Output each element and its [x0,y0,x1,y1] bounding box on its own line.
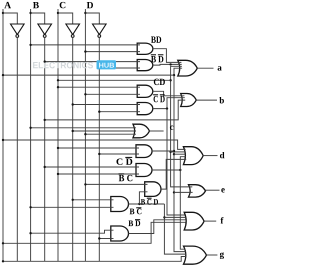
label C D-bar [116,157,132,164]
wire B-bar to AND BbC in1 [45,166,139,168]
and-gate CD [137,85,153,97]
and-gate B C-bar [111,197,129,212]
label B-bar C [119,174,133,181]
inverter NOT-C [66,24,80,37]
wire A to OR d in1 [3,140,186,149]
and-gate C-bar D-bar [137,103,153,115]
node D inverter branch junction [84,12,86,14]
wire input D rail [84,9,86,261]
wire BbC up to OR d in4 [180,157,186,170]
wire B-bar to AND BbC in1 junction [44,166,46,168]
wire D-bar to AND CbDb in2 [99,111,140,113]
wire D to OR c in3 junction [84,133,86,135]
or-gate b [181,94,197,107]
wire C-bar to OR c in2 [73,130,136,132]
output label b [219,97,224,103]
input label C [60,2,66,8]
wire output g [207,254,218,256]
wire C-bar to AND BCb in1 junction [72,199,74,201]
node B-bar rail junction y120 [44,119,46,121]
wire C-bar to AND BCb in1 [73,199,114,201]
wire bus x174 to OR d in3 [174,153,186,155]
wire C to AND CD in1 junction [57,86,59,88]
wire B-bar rail [44,38,46,261]
wire input A rail [2,9,4,261]
label B-bar D-bar [151,55,164,63]
wire C-bar rail [72,38,74,261]
wire D-bar to AND CDb in2 junction [98,153,100,155]
wire D to AND CD in2 [85,93,140,95]
node OR d in2 branch on bus x170 [169,151,171,153]
wire D to OR c in3 [85,133,136,135]
node OR e in2 branch on bus x174 [173,191,175,193]
wire bus x174 to OR e in2 [174,191,193,193]
wire output a [197,67,213,69]
wire bus x170 OR a in3 to OR e in1 [171,66,193,187]
inverter NOT-D [93,24,107,37]
wire AND BDb out to OR f in3 [129,220,186,234]
wire C to AND CDb in1 junction [57,147,59,149]
watermark ELECTRONICS text [33,62,93,69]
wire B to AND BCb in2 junction [29,206,31,208]
node BbC branch junction [179,169,181,171]
wire B to AND BD in1 [31,44,140,46]
wire C-bar to AND CbDb in1 junction [72,103,74,105]
wire AND BbC out to riser x180 [152,169,180,171]
wire output e [206,189,220,191]
wire B to AND BCb in2 [31,206,114,208]
wire B to AND BD in1 junction [29,44,31,46]
node C rail junction y80 [57,79,59,81]
node A rail junction y261 [2,260,4,262]
wire input C rail [57,9,59,261]
or-gate f [184,212,204,230]
wire AND BbDb out to OR a in2 [153,63,182,66]
wire C to inverter [58,13,73,24]
label B D-bar [128,220,140,226]
wire output b [196,99,217,101]
wire bus x174 OR a in4 to OR g in2 [174,68,186,251]
wire AND CDb out to bus x174 [152,150,174,152]
wire B to inverter [31,13,45,24]
wire AND CD out to OR b in1 [153,91,185,96]
wire output d [203,155,217,157]
inverter NOT-A [11,24,25,37]
wire C-bar to AND CbDb in1 [73,104,140,106]
label BD [151,37,161,43]
node AND CDb out joins bus x174 [173,150,175,152]
wire A to inverter [3,13,17,24]
label CD [154,79,165,85]
wire D-bar rail [98,38,100,261]
node OR d in3 branch on bus x174 [173,153,175,155]
input label B [33,2,39,8]
wire OR c output [150,130,164,132]
wire AND BCbD out to OR d in5 [161,159,186,189]
wire D-bar to AND CDb in2 [99,153,139,155]
watermark HUB badge [97,60,117,69]
wire D to AND BCbD in1 [85,183,147,185]
wire D to AND BCbD in1 junction [84,183,86,185]
wire D-bar to AND CbDb in2 junction [98,111,100,113]
wire B-bar to AND BbDb in1 junction [44,60,46,62]
and-gate B C-bar D [145,182,161,197]
wire A to OR g in4 [3,257,186,262]
node BbDb branch junction at bus [169,63,171,65]
and-gate B-bar C [136,164,152,177]
wire output f [204,220,216,222]
output label d [220,152,225,158]
wire CbDb down to OR f in1 [167,109,185,215]
and-gate B-bar D-bar [137,60,153,71]
wire BCb up into AND BCbD in2 [139,192,147,204]
node BCb branch to OR f in2 [163,216,165,218]
label B C-bar [130,208,142,214]
wire D-bar to AND BDb in2 [99,238,113,240]
wire D to AND BD in2 [85,51,140,53]
and-gate BD [137,43,153,54]
node B inverter branch junction [29,12,31,14]
wire C to AND BbC in2 junction [57,173,59,175]
wire B to AND BDb in1 [31,230,114,233]
wire C to AND CD in1 [58,86,140,88]
or-gate e [189,185,206,197]
output label g [220,252,224,259]
wire D-bar to AND BbDb in2 junction [98,67,100,69]
wire B-bar to AND BbDb in1 [45,61,140,63]
wire D to inverter [85,13,99,24]
wire bus x170 to OR d in2 [171,151,185,153]
node A rail junction y75 [2,74,4,76]
or-gate g [184,246,207,264]
wire C rail to bus x170 [58,79,171,81]
wire BbC down to OR g in1 [180,170,185,249]
wire C to AND CDb in1 [58,147,139,149]
node A joins bus x174 [173,74,175,76]
input label A [4,2,11,8]
wire D to AND CD in2 junction [84,93,86,95]
node BCb branch to BCbD [138,203,140,205]
node A inverter branch junction [2,12,4,14]
and-gate B D-bar [111,226,129,241]
or-gate a [178,60,198,76]
wire D to AND BD in2 junction [84,50,86,52]
input label D [87,2,93,8]
wire B-bar to OR b in3 [45,100,186,120]
wire A to OR f in4 [3,222,186,243]
node CbDb branch junction [166,107,168,109]
output label e [221,188,224,192]
wire AND BD out to OR a in1 [153,49,182,63]
wire D-bar to AND BbDb in2 [99,67,140,69]
wire AND BCb output [129,203,165,205]
label C-bar D-bar [153,95,165,102]
node A rail junction y243 [2,242,4,244]
wire B to OR c in1 junction [29,127,31,129]
wire D-bar to AND BDb in2 junction [98,237,100,239]
wire A rail to bus x174 [3,74,174,76]
wire BCb to OR f in2 [164,216,185,218]
output label f [220,217,223,223]
label B C-bar D [141,198,158,205]
wire B to AND BDb in1 junction [29,232,31,234]
node A rail junction y140 [2,139,4,141]
wire input B rail [30,9,32,261]
node C inverter branch junction [57,12,59,14]
output label a [218,66,222,70]
or-gate d [183,147,203,165]
node C joins bus x170 [169,79,171,81]
or-gate c [133,124,150,138]
wire BCb down to OR g in3 [164,204,186,254]
wire B to OR c in1 [31,127,136,129]
output label c [170,126,173,130]
and-gate C D-bar [136,145,152,158]
inverter NOT-B [38,24,52,37]
wire C to AND BbC in2 [58,173,139,175]
wire C-bar to OR c in2 junction [72,130,74,132]
wire AND CbDb out to OR b in2 [153,98,185,109]
wire A-bar rail [16,38,18,261]
